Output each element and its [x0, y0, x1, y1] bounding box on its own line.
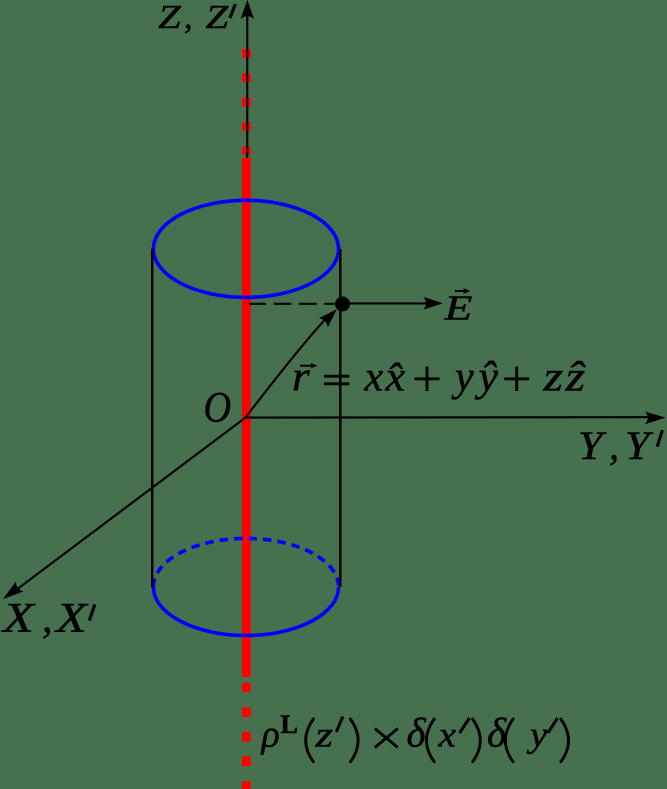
svg-text:δ: δ	[487, 710, 507, 756]
svg-text:E: E	[443, 288, 472, 327]
svg-text:ρ: ρ	[261, 714, 280, 756]
svg-text:ẑ: ẑ	[564, 354, 586, 400]
svg-text:x̂: x̂	[384, 354, 405, 400]
svg-text:,: ,	[609, 423, 619, 468]
svg-text:x: x	[437, 715, 456, 755]
svg-text:,: ,	[42, 596, 53, 642]
svg-text:O: O	[204, 382, 232, 431]
svg-text:,: ,	[184, 0, 193, 36]
svg-text:δ: δ	[407, 710, 427, 756]
svg-text:L: L	[281, 710, 298, 739]
svg-text:z: z	[542, 354, 563, 400]
svg-text:y: y	[526, 716, 548, 755]
svg-text:ŷ: ŷ	[474, 354, 499, 400]
svg-text:z: z	[314, 715, 333, 755]
svg-text:Z: Z	[206, 0, 230, 36]
svg-text:x: x	[364, 355, 384, 401]
svg-text:r: r	[292, 355, 310, 401]
svg-text:X: X	[1, 596, 36, 642]
svg-text:y: y	[451, 355, 474, 401]
svg-text:X: X	[54, 596, 89, 642]
svg-text:Z: Z	[158, 0, 182, 36]
